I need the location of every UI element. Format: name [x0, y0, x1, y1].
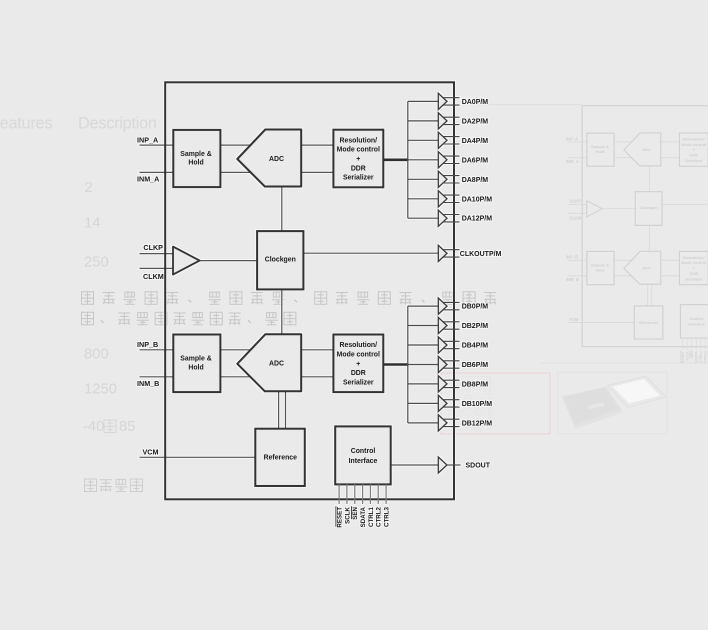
svg-text:-40: -40 — [83, 419, 104, 435]
TI logo hint on left chip — [588, 402, 604, 409]
faint separator line above figure — [455, 104, 582, 106]
chip package left (top view dark) — [562, 387, 621, 427]
svg-text:Description: Description — [78, 115, 157, 133]
chip package right (bottom view light) — [607, 376, 666, 408]
svg-text:14: 14 — [84, 216, 100, 232]
thumbnail 2 (chip photo) — [558, 372, 667, 434]
svg-text:85: 85 — [119, 419, 135, 435]
faint mini block diagram (page figure) — [566, 106, 708, 363]
svg-text:800: 800 — [84, 346, 109, 362]
svg-text:Features: Features — [0, 115, 52, 133]
svg-text:250: 250 — [84, 254, 109, 270]
faint separator line below figure — [540, 362, 708, 364]
thumbnail 1 selected (red border with mini diagram) — [441, 373, 550, 434]
left nav text — [85, 479, 143, 492]
svg-text:1250: 1250 — [84, 381, 117, 397]
description paragraph line 1 — [82, 292, 497, 305]
svg-text:2: 2 — [85, 180, 93, 196]
description paragraph line 2 — [82, 312, 296, 325]
